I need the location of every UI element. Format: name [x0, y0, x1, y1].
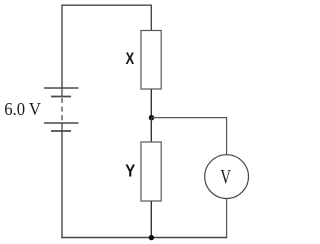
- wire node A to voltmeter (horizontal): [152, 117, 228, 119]
- wire resistor X to node A: [150, 89, 152, 118]
- battery B1 long plate 2: [44, 122, 79, 124]
- wire resistor Y to node B: [150, 201, 152, 238]
- wire top-left vertical (battery to top): [61, 5, 63, 88]
- svg-text:X: X: [126, 49, 135, 68]
- voltmeter U1 circle: [205, 155, 249, 199]
- wire voltmeter top vertical: [226, 117, 228, 155]
- wire right vertical into resistor X: [150, 5, 152, 31]
- wire voltmeter bottom vertical: [226, 199, 228, 239]
- battery B1 long plate 1: [44, 87, 79, 89]
- svg-text:Y: Y: [125, 161, 135, 181]
- battery B1 dashed cell-omission line: [61, 98, 63, 123]
- wire node A to resistor Y: [150, 118, 152, 142]
- wire left vertical (battery to bottom): [61, 131, 63, 238]
- battery B1 short plate 2: [51, 130, 71, 132]
- resistor Y body: [141, 142, 161, 201]
- resistor X body: [141, 31, 161, 90]
- svg-text:V: V: [220, 167, 231, 188]
- battery B1 stem 2: [61, 123, 63, 131]
- node A junction dot: [149, 115, 154, 120]
- wire top horizontal: [61, 4, 152, 6]
- battery B1 short plate 1: [51, 96, 71, 98]
- svg-text:6.0 V: 6.0 V: [4, 99, 41, 119]
- wire bottom horizontal: [61, 237, 227, 239]
- node B junction dot: [149, 235, 154, 240]
- battery B1 stem 1: [61, 88, 63, 97]
